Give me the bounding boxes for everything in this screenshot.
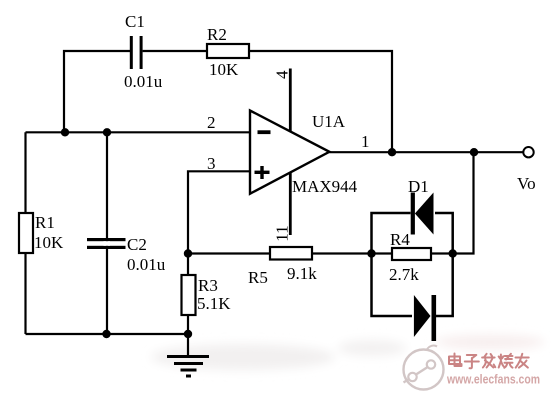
- svg-text:C2: C2: [127, 235, 147, 254]
- output terminal Vo: [523, 147, 533, 157]
- node junction limiter left: [367, 249, 375, 257]
- diode (bottom, pointing right): [414, 295, 436, 341]
- wire: limiter loop frame: [372, 213, 453, 316]
- resistor R4: [389, 230, 431, 284]
- svg-text:www.elecfans.com: www.elecfans.com: [446, 373, 540, 387]
- svg-text:R2: R2: [207, 25, 227, 44]
- svg-text:Vo: Vo: [517, 174, 536, 193]
- svg-text:10K: 10K: [34, 233, 64, 252]
- wire: left vertical through R1: [24, 132, 26, 334]
- svg-text:C1: C1: [125, 12, 145, 31]
- node junction pin2/C2-branch: [103, 128, 111, 136]
- resistor R5: [248, 247, 317, 287]
- svg-text:R3: R3: [198, 276, 218, 295]
- wire: top feedback horizontal (left vertical to C1): [64, 51, 130, 132]
- svg-text:D1: D1: [408, 177, 429, 196]
- diode D1 (top, pointing left): [408, 177, 434, 235]
- svg-text:11: 11: [272, 225, 291, 241]
- resistor R1: [19, 213, 64, 253]
- svg-text:0.01u: 0.01u: [127, 255, 166, 274]
- svg-text:0.01u: 0.01u: [124, 72, 163, 91]
- wire: C2 vertical branch: [106, 132, 108, 334]
- watermark text dianzifashaoyou (vector strokes): [449, 354, 529, 369]
- resistor R3: [182, 275, 232, 315]
- wire: C1 to R2: [143, 50, 207, 52]
- capacitor C1: [124, 12, 163, 91]
- node junction output/limiter-feed: [470, 148, 478, 156]
- svg-text:5.1K: 5.1K: [197, 294, 231, 313]
- resistor R2: [207, 25, 249, 79]
- node junction limiter right: [449, 249, 457, 257]
- wire: R5 to R4 network and up to output: [312, 152, 474, 253]
- svg-text:MAX944: MAX944: [292, 177, 358, 196]
- node junction pin3-branch / R5 row: [184, 249, 192, 257]
- svg-text:1: 1: [361, 132, 370, 151]
- svg-text:9.1k: 9.1k: [287, 264, 317, 283]
- svg-text:U1A: U1A: [312, 112, 346, 131]
- svg-text:10K: 10K: [209, 60, 239, 79]
- wire: non-inverting input (pin 3) horizontal: [188, 171, 250, 253]
- wire: R2 to feedback corner down to output node: [249, 51, 392, 152]
- svg-text:3: 3: [207, 154, 216, 173]
- wire: R3 vertical: [187, 254, 189, 335]
- svg-text:R4: R4: [390, 230, 410, 249]
- svg-text:R1: R1: [35, 213, 55, 232]
- capacitor C2: [87, 235, 166, 274]
- wire: output line: [329, 151, 523, 153]
- op-amp U1A: [250, 111, 358, 197]
- svg-text:2.7k: 2.7k: [389, 265, 419, 284]
- pin 4 stub: [272, 69, 291, 132]
- ground: [167, 334, 209, 376]
- pin 11 stub: [272, 173, 291, 242]
- wire: bottom rail: [26, 333, 189, 335]
- node junction C2/bottom rail: [102, 330, 110, 338]
- watermark logo circle: [404, 346, 444, 390]
- wire: R5 row: [188, 252, 270, 254]
- svg-text:R5: R5: [248, 268, 268, 287]
- node junction R3/bottom rail/ground: [184, 330, 192, 338]
- wire: inverting input (pin 2) horizontal: [26, 131, 251, 133]
- node junction pin2/left-branch: [61, 128, 69, 136]
- node junction feedback/output: [388, 148, 396, 156]
- svg-text:4: 4: [272, 70, 291, 79]
- svg-text:2: 2: [207, 113, 216, 132]
